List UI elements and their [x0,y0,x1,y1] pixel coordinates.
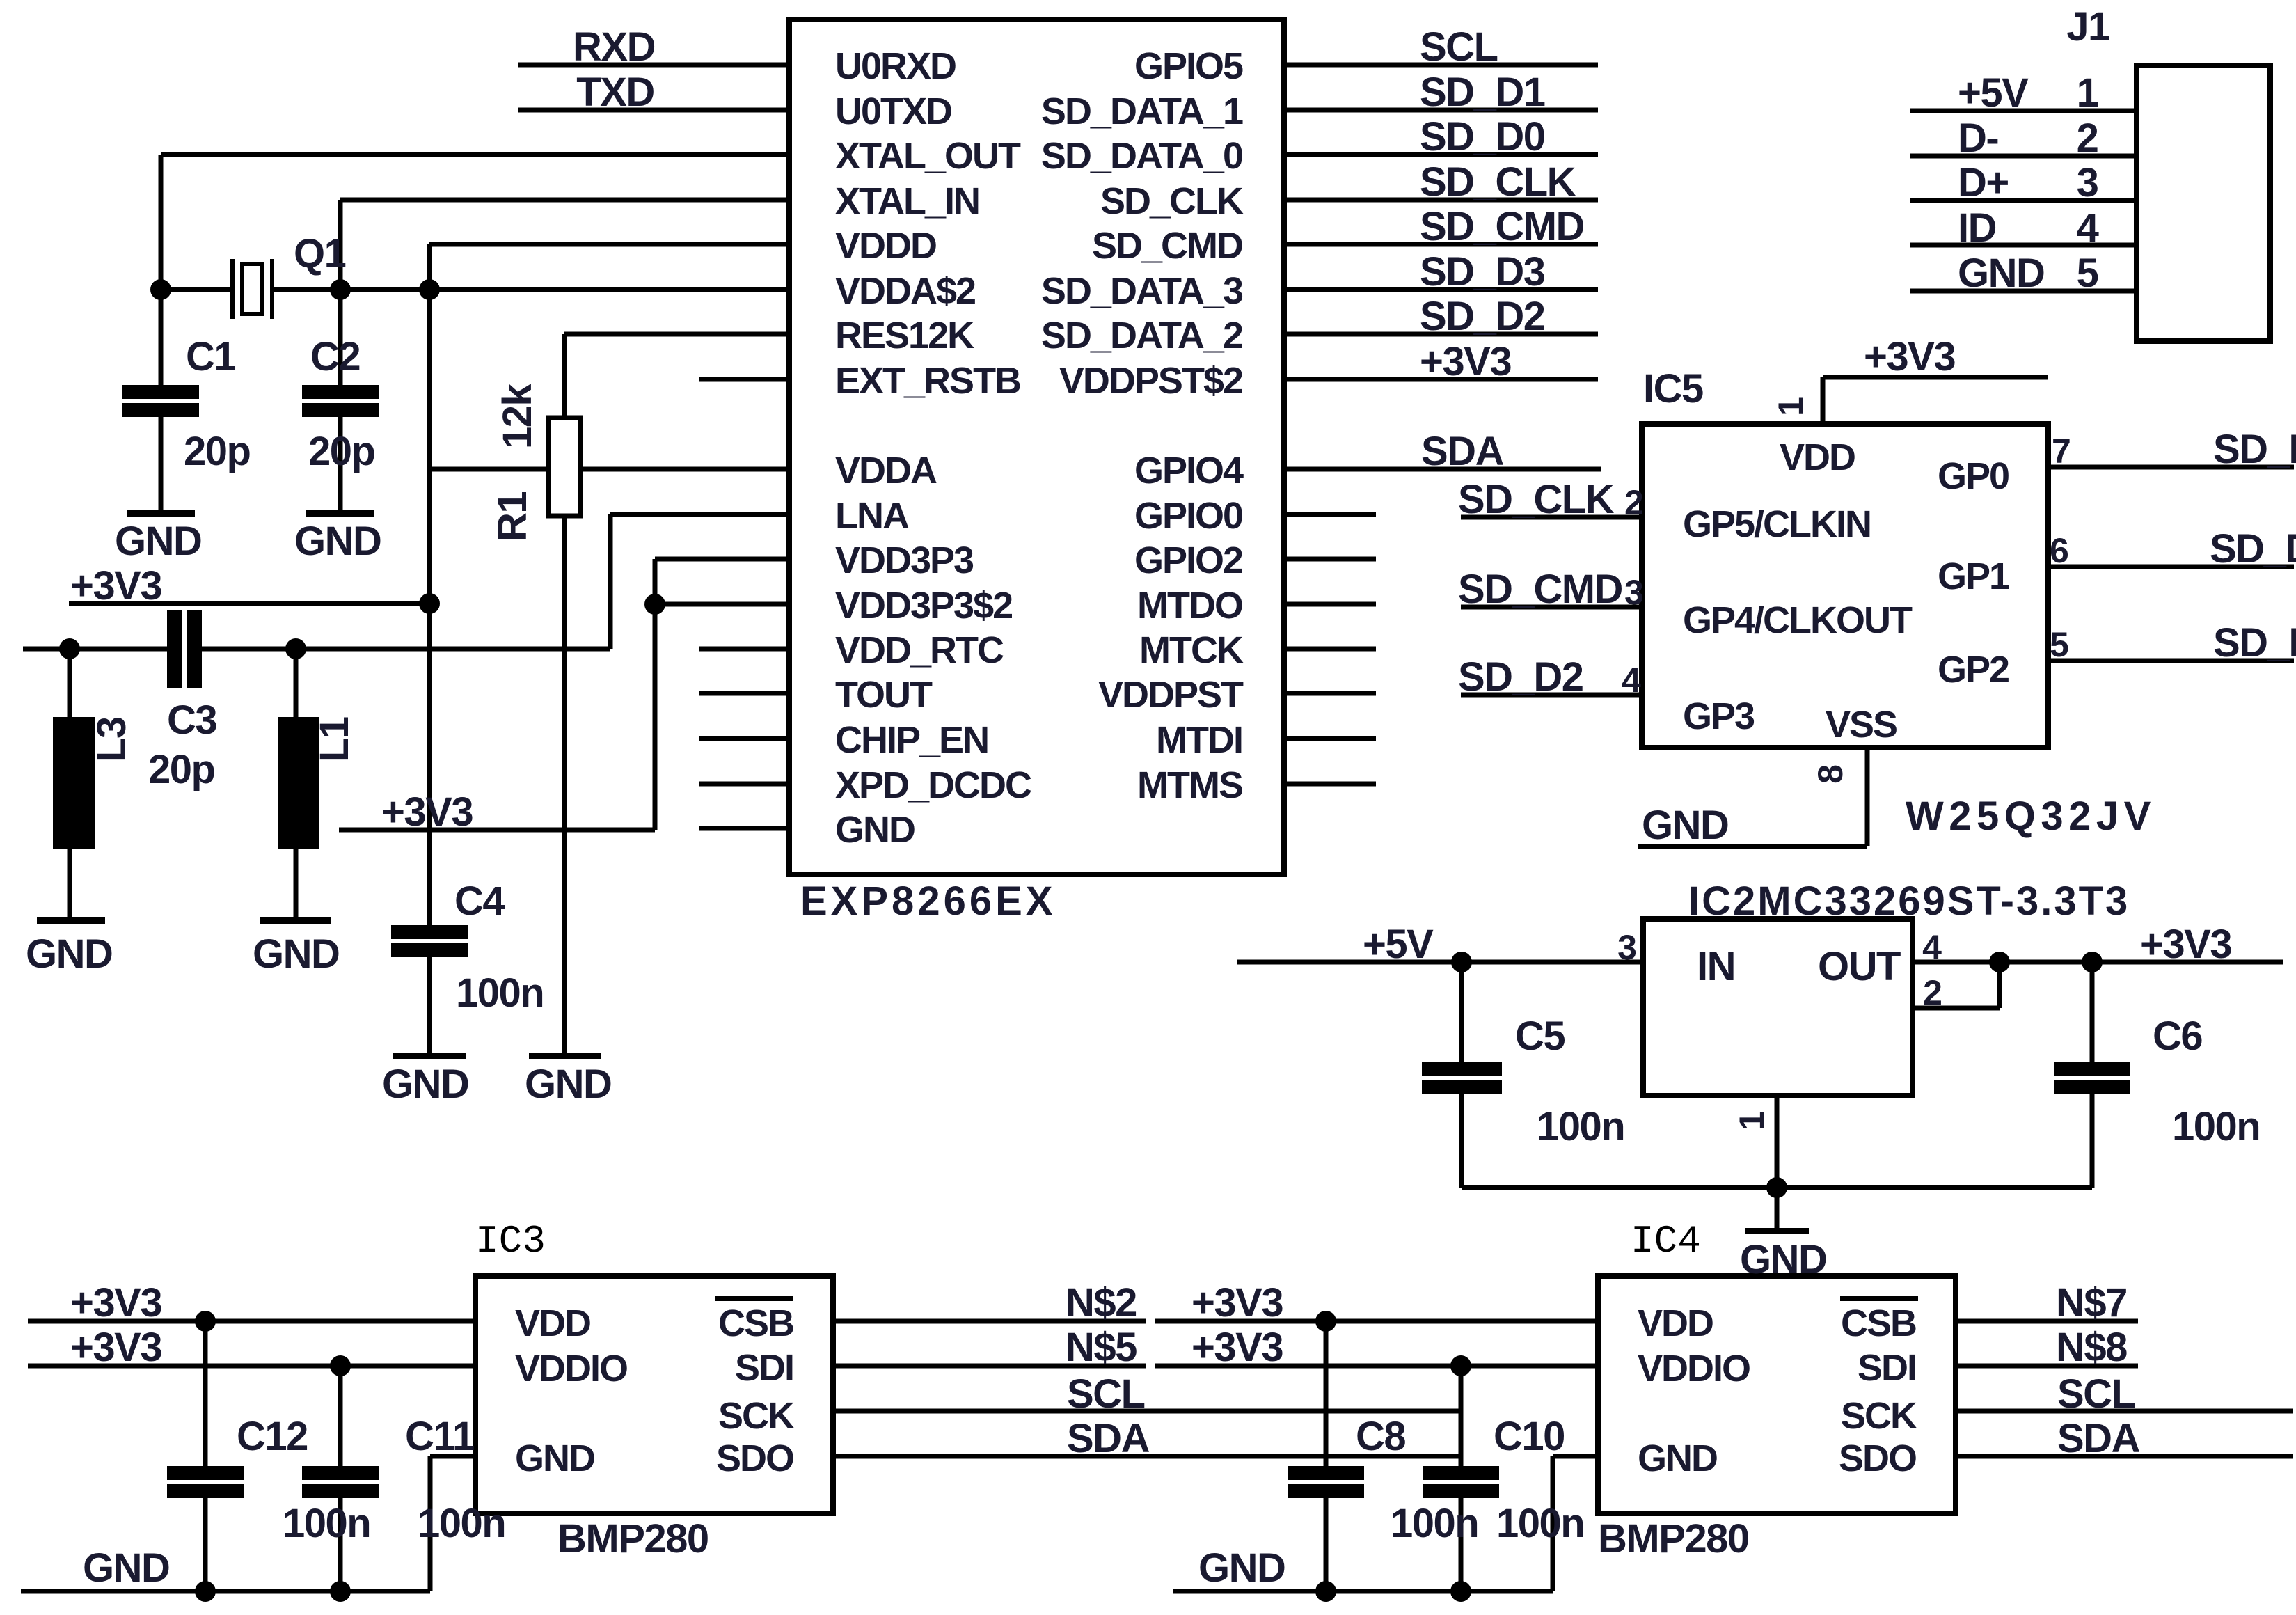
svg-text:GND: GND [83,1545,169,1591]
svg-text:L3: L3 [89,717,134,762]
svg-text:IC2MC33269ST-3.3T3: IC2MC33269ST-3.3T3 [1688,879,2130,924]
svg-text:MTDI: MTDI [1156,719,1242,761]
svg-text:SD_DATA_2: SD_DATA_2 [1041,315,1242,356]
svg-text:20p: 20p [148,747,215,792]
svg-text:VDD: VDD [1780,436,1855,478]
svg-text:C4: C4 [454,879,505,924]
svg-text:GND: GND [1638,1437,1717,1479]
svg-text:MTCK: MTCK [1139,629,1244,671]
svg-text:EXP8266EX: EXP8266EX [800,879,1056,924]
svg-text:3: 3 [1624,573,1644,612]
svg-text:VDD3P3$2: VDD3P3$2 [835,585,1012,627]
svg-text:CSB: CSB [1841,1302,1916,1344]
svg-text:TOUT: TOUT [835,674,933,716]
svg-text:100n: 100n [1391,1501,1478,1546]
svg-text:ID: ID [1958,205,1996,251]
svg-text:SCL: SCL [2057,1371,2135,1417]
svg-text:RES12K: RES12K [835,315,974,356]
svg-text:+3V3: +3V3 [70,563,161,608]
svg-text:3: 3 [1617,928,1637,967]
svg-text:C3: C3 [167,698,216,743]
svg-text:4: 4 [1622,661,1641,700]
svg-text:CSB: CSB [718,1302,793,1344]
svg-text:12k: 12k [495,383,540,449]
svg-text:GND: GND [382,1062,468,1107]
svg-text:+3V3: +3V3 [70,1325,161,1370]
svg-text:SD_D1: SD_D1 [2213,427,2296,472]
svg-text:MTDO: MTDO [1137,585,1242,627]
svg-text:SD_CMD: SD_CMD [1092,225,1242,267]
svg-text:RXD: RXD [573,24,655,70]
svg-text:SD_CLK: SD_CLK [1420,159,1576,205]
svg-text:W25Q32JV: W25Q32JV [1906,794,2156,839]
svg-text:2: 2 [2077,116,2098,161]
svg-text:D-: D- [1958,116,1998,161]
svg-text:GND: GND [1642,803,1728,848]
svg-text:4: 4 [2077,205,2099,251]
svg-text:VDD: VDD [515,1302,590,1344]
svg-text:VDDIO: VDDIO [1638,1348,1750,1389]
svg-text:C11: C11 [405,1414,474,1459]
svg-text:XPD_DCDC: XPD_DCDC [835,764,1031,806]
svg-text:GPIO5: GPIO5 [1134,45,1243,87]
svg-text:+3V3: +3V3 [1191,1280,1283,1325]
svg-text:TXD: TXD [576,70,654,115]
svg-text:SCK: SCK [1841,1395,1917,1437]
svg-text:IC4: IC4 [1631,1219,1701,1263]
svg-text:SD_CMD: SD_CMD [1420,204,1584,249]
svg-text:IC3: IC3 [475,1219,546,1263]
svg-text:GPIO4: GPIO4 [1134,450,1244,491]
svg-text:U0TXD: U0TXD [835,90,951,132]
svg-text:+3V3: +3V3 [1420,339,1511,384]
svg-text:GND: GND [835,809,915,851]
svg-text:GP3: GP3 [1683,695,1755,737]
svg-text:VDDA: VDDA [835,450,937,491]
svg-text:N$8: N$8 [2056,1325,2127,1370]
svg-text:SCK: SCK [718,1395,795,1437]
svg-text:GND: GND [515,1437,594,1479]
svg-text:N$5: N$5 [1066,1325,1137,1370]
svg-text:XTAL_OUT: XTAL_OUT [835,135,1021,177]
svg-text:SD_CLK: SD_CLK [1100,180,1244,222]
svg-text:BMP280: BMP280 [1598,1516,1749,1561]
svg-text:VDD: VDD [1638,1302,1713,1344]
svg-text:SD_CLK: SD_CLK [1458,477,1615,522]
svg-text:IC5: IC5 [1643,366,1703,411]
svg-text:2: 2 [1624,483,1644,522]
svg-text:+3V3: +3V3 [381,789,473,835]
svg-text:SDA: SDA [2057,1416,2140,1461]
svg-text:L1: L1 [312,717,357,762]
svg-text:SD_DATA_0: SD_DATA_0 [1041,135,1242,177]
svg-text:GND: GND [294,519,381,564]
svg-text:SD_DATA_3: SD_DATA_3 [1041,270,1243,312]
svg-text:N$2: N$2 [1066,1280,1137,1325]
svg-text:GND: GND [525,1062,611,1107]
svg-text:1: 1 [2077,70,2098,116]
svg-text:+5V: +5V [1363,922,1434,967]
svg-text:+3V3: +3V3 [2140,922,2231,967]
svg-text:GND: GND [1198,1545,1285,1591]
svg-text:SCL: SCL [1067,1371,1145,1417]
svg-text:SD_D1: SD_D1 [1420,70,1545,115]
svg-text:VDDD: VDDD [835,225,936,267]
svg-text:+3V3: +3V3 [1864,334,1955,379]
svg-text:100n: 100n [456,970,544,1016]
svg-text:8: 8 [1811,764,1850,784]
svg-text:C2: C2 [310,334,360,379]
svg-text:EXT_RSTB: EXT_RSTB [835,360,1020,402]
svg-text:VDDPST: VDDPST [1098,674,1244,716]
svg-text:SDI: SDI [1858,1347,1916,1389]
svg-text:SCL: SCL [1420,24,1498,70]
svg-text:N$7: N$7 [2056,1280,2127,1325]
svg-text:20p: 20p [184,429,251,474]
svg-text:C1: C1 [186,334,235,379]
svg-text:GND: GND [115,519,201,564]
svg-text:3: 3 [2077,160,2098,205]
svg-text:SDI: SDI [735,1347,793,1389]
svg-text:GND: GND [26,931,112,977]
svg-text:SD_CMD: SD_CMD [1458,567,1622,612]
svg-text:MTMS: MTMS [1137,764,1242,806]
svg-text:2: 2 [1923,973,1942,1012]
svg-text:VSS: VSS [1826,704,1897,746]
svg-text:1: 1 [1771,397,1810,416]
svg-text:20p: 20p [308,429,375,474]
svg-text:GND: GND [253,931,339,977]
svg-text:100n: 100n [283,1501,370,1546]
svg-text:D+: D+ [1958,160,2009,205]
svg-text:GPIO2: GPIO2 [1134,539,1242,581]
svg-text:SDA: SDA [1421,429,1504,474]
svg-text:5: 5 [2050,625,2069,664]
svg-text:U0RXD: U0RXD [835,45,956,87]
svg-text:VDDPST$2: VDDPST$2 [1059,360,1242,402]
svg-text:Q1: Q1 [294,231,346,276]
svg-text:VDD_RTC: VDD_RTC [835,629,1004,671]
svg-text:GP2: GP2 [1938,649,2009,691]
svg-text:100n: 100n [418,1501,505,1546]
svg-text:OUT: OUT [1818,944,1901,989]
svg-text:100n: 100n [2172,1104,2260,1149]
svg-text:IN: IN [1697,944,1735,989]
svg-text:GPIO0: GPIO0 [1134,495,1242,537]
svg-text:C5: C5 [1515,1014,1565,1059]
svg-text:CHIP_EN: CHIP_EN [835,719,988,761]
svg-text:+5V: +5V [1958,70,2029,116]
svg-text:XTAL_IN: XTAL_IN [835,180,979,222]
svg-text:SDO: SDO [716,1437,793,1479]
svg-text:6: 6 [2050,531,2069,570]
svg-text:5: 5 [2077,251,2098,296]
svg-text:+3V3: +3V3 [70,1280,161,1325]
svg-text:C12: C12 [237,1414,308,1459]
svg-text:R1: R1 [490,492,535,542]
svg-text:GND: GND [1740,1237,1826,1282]
svg-text:SD_DATA_1: SD_DATA_1 [1041,90,1243,132]
svg-text:LNA: LNA [835,495,909,537]
svg-text:4: 4 [1922,928,1942,967]
svg-text:VDDIO: VDDIO [515,1348,627,1389]
svg-text:7: 7 [2052,432,2071,471]
svg-text:SD_D0: SD_D0 [2210,526,2296,572]
svg-text:GND: GND [1958,251,2044,296]
svg-text:C8: C8 [1356,1414,1405,1459]
svg-text:VDD3P3: VDD3P3 [835,539,974,581]
svg-text:J1: J1 [2066,4,2109,49]
svg-text:SD_D3: SD_D3 [1420,249,1545,294]
svg-text:GP5/CLKIN: GP5/CLKIN [1683,503,1871,545]
svg-text:SDO: SDO [1839,1437,1916,1479]
svg-text:+3V3: +3V3 [1191,1325,1283,1370]
svg-text:SD_D2: SD_D2 [1458,654,1583,700]
svg-text:100n: 100n [1496,1501,1584,1546]
svg-text:GP0: GP0 [1938,455,2009,497]
svg-text:BMP280: BMP280 [557,1516,708,1561]
svg-text:GP4/CLKOUT: GP4/CLKOUT [1683,599,1913,641]
svg-text:VDDA$2: VDDA$2 [835,270,975,312]
svg-text:SD_D2: SD_D2 [1420,294,1544,339]
svg-text:SD_D3: SD_D3 [2213,620,2296,665]
svg-text:C10: C10 [1494,1414,1565,1459]
svg-text:1: 1 [1732,1111,1771,1130]
svg-text:C6: C6 [2153,1014,2202,1059]
svg-text:SDA: SDA [1067,1416,1150,1461]
svg-text:100n: 100n [1537,1104,1624,1149]
svg-text:GP1: GP1 [1938,556,2009,597]
svg-text:SD_D0: SD_D0 [1420,114,1544,159]
